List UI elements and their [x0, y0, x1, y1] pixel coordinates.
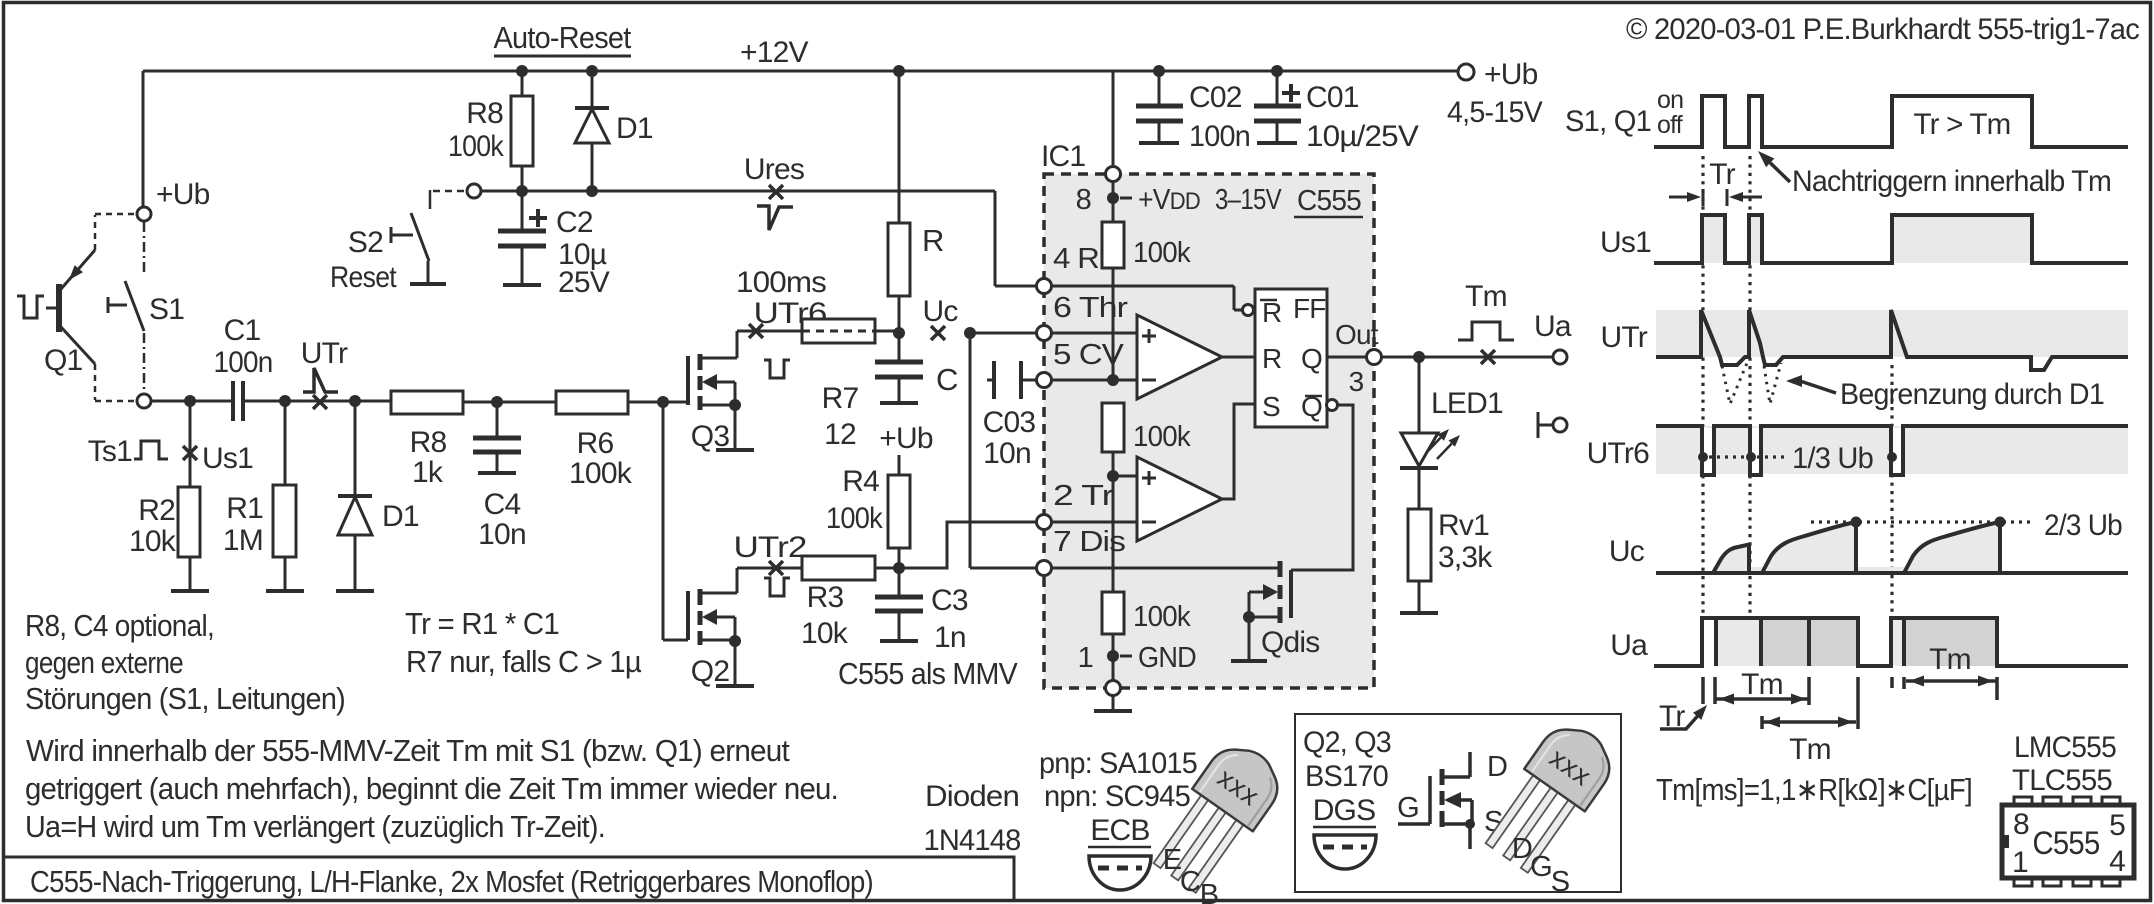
- svg-text:10µ/25V: 10µ/25V: [1306, 120, 1419, 153]
- svg-text:R1: R1: [226, 492, 263, 525]
- waveform Uc fills: [1713, 567, 2000, 573]
- svg-text:Qdis: Qdis: [1261, 626, 1320, 659]
- junction Uc-Thr/Dis branch: [964, 327, 976, 339]
- capacitor C02 100n: [1136, 71, 1250, 153]
- svg-text:C555: C555: [2033, 825, 2100, 861]
- svg-text:FF: FF: [1293, 293, 1326, 324]
- svg-text:Tm: Tm: [1741, 668, 1783, 701]
- mosfet symbol legend: [1397, 751, 1507, 849]
- diode D1 (input clamp): [338, 401, 419, 591]
- svg-text:Auto-Reset: Auto-Reset: [494, 20, 632, 55]
- wire Uc to pin6 Thr: [970, 332, 1037, 335]
- svg-text:getriggert (auch mehrfach), be: getriggert (auch mehrfach), beginnt die …: [25, 771, 838, 806]
- svg-text:gegen externe: gegen externe: [25, 645, 183, 680]
- resistor R8 1k (series): [391, 391, 497, 489]
- waveform UTr6 pulse windows: [1704, 428, 1713, 475]
- dimension Tm third: [1892, 676, 1997, 701]
- legend box Q2 Q3: [1295, 714, 1621, 892]
- svg-text:npn: SC945: npn: SC945: [1044, 780, 1190, 813]
- node Us1 measurement point: [183, 442, 253, 475]
- wire Out to Ua: [1381, 356, 1553, 359]
- capacitor C03 10n (CV): [983, 361, 1037, 470]
- svg-text:1/3 Ub: 1/3 Ub: [1792, 442, 1873, 475]
- svg-text:UTr: UTr: [301, 337, 348, 370]
- waveform Uc curve 2: [1762, 522, 1856, 573]
- annotation Begrenzung durch D1: [1786, 375, 2104, 411]
- pin 4 R: [1037, 243, 1100, 294]
- node trigger-line left terminal: [137, 394, 151, 408]
- svg-text:Q2: Q2: [691, 655, 730, 688]
- svg-text:R7 nur, falls C > 1µ: R7 nur, falls C > 1µ: [406, 644, 642, 679]
- svg-text:D: D: [1512, 833, 1532, 865]
- pin 6 Thr: [1037, 292, 1129, 341]
- ground D1: [336, 589, 374, 593]
- node IC1 GND border circle: [1106, 656, 1121, 696]
- junction rail-C01: [1271, 65, 1283, 77]
- ground C01: [1257, 141, 1297, 145]
- svg-text:C02: C02: [1189, 81, 1242, 114]
- svg-text:2 Tr: 2 Tr: [1053, 480, 1114, 512]
- svg-text:C4: C4: [484, 488, 521, 521]
- svg-text:on: on: [1657, 86, 1683, 114]
- svg-text:R7: R7: [822, 382, 859, 415]
- wire divider to 100k bottom: [1112, 476, 1115, 592]
- node IC1 VDD border circle: [1106, 167, 1121, 182]
- svg-text:7 Dis: 7 Dis: [1053, 526, 1125, 558]
- junction D1 tap: [349, 395, 361, 407]
- diode D1 (auto-reset): [575, 71, 653, 191]
- svg-text:Tr = R1 * C1: Tr = R1 * C1: [405, 606, 559, 641]
- svg-text:Nachtriggern innerhalb Tm: Nachtriggern innerhalb Tm: [1792, 165, 2111, 198]
- label pnp npn types: [1039, 747, 1197, 813]
- junction Ures-D1: [586, 185, 598, 197]
- svg-text:Wird innerhalb der 555-MMV-Zei: Wird innerhalb der 555-MMV-Zeit Tm mit S…: [26, 733, 790, 768]
- node Ua terminal: [1534, 310, 1572, 364]
- svg-text:100k: 100k: [569, 457, 633, 490]
- node Ures measurement point: [744, 153, 804, 230]
- waveform S1 Q1 trace: [1654, 96, 2128, 147]
- resistor R4 100k: [826, 465, 910, 568]
- junction divider-comp2: [1107, 470, 1119, 482]
- svg-text:10n: 10n: [983, 437, 1031, 470]
- svg-text:C555 als MMV: C555 als MMV: [838, 656, 1018, 691]
- svg-text:Out: Out: [1335, 319, 1379, 350]
- dimension Tr: [1669, 158, 1762, 206]
- svg-text:Tr: Tr: [1709, 158, 1735, 191]
- led LED1: [1400, 357, 1503, 468]
- svg-text:S1: S1: [149, 293, 184, 326]
- svg-text:C555: C555: [1297, 185, 1361, 217]
- svg-text:Ua: Ua: [1610, 629, 1648, 662]
- ground IC1: [1094, 695, 1132, 711]
- dimension Tm first: [1716, 668, 1809, 705]
- svg-text:+Ub: +Ub: [1484, 58, 1538, 91]
- wire trigger line segment 2: [285, 400, 355, 403]
- svg-text:G: G: [1530, 851, 1552, 883]
- svg-text:off: off: [1657, 111, 1683, 139]
- svg-text:Begrenzung durch D1: Begrenzung durch D1: [1840, 378, 2104, 411]
- label pin1 GND: [1078, 642, 1196, 674]
- svg-text:100k: 100k: [448, 130, 505, 163]
- capacitor C4 10n: [473, 402, 526, 551]
- svg-text:8: 8: [1076, 184, 1091, 216]
- label Q2 Q3 BS170: [1303, 726, 1391, 793]
- node UTr2 measurement point: [769, 561, 783, 575]
- svg-text:Dioden: Dioden: [925, 780, 1019, 813]
- junction rail-D1: [586, 65, 598, 77]
- junction rail-R: [893, 65, 905, 77]
- resistor divider 100k middle: [1102, 403, 1191, 476]
- svg-text:S1, Q1: S1, Q1: [1565, 105, 1651, 138]
- ground Q3 source: [716, 448, 754, 452]
- svg-text:4: 4: [2109, 845, 2125, 878]
- wire gate node to Q2: [663, 402, 688, 640]
- wire Uc to pin7 Dis: [970, 333, 1037, 568]
- label +VDD 3-15V C555: [1076, 184, 1363, 217]
- node +Ub right terminal: [1447, 58, 1543, 129]
- IC1 C555 block outline: [1041, 140, 1374, 688]
- switch S2 Reset: [330, 190, 466, 294]
- svg-text:Störungen (S1, Leitungen): Störungen (S1, Leitungen): [25, 681, 345, 716]
- ground Qdis: [1231, 659, 1267, 663]
- node pin3 Out border circle: [1367, 350, 1382, 365]
- svg-text:6 Thr: 6 Thr: [1053, 292, 1128, 324]
- svg-text:R2: R2: [138, 494, 175, 527]
- svg-text:Ts1: Ts1: [88, 435, 132, 468]
- svg-text:S: S: [1551, 866, 1570, 898]
- waveform Uc curve 3: [1904, 522, 2000, 573]
- waveform UTr6 band: [1656, 426, 2128, 474]
- svg-text:D: D: [1487, 751, 1507, 783]
- ground C4: [478, 471, 516, 475]
- svg-text:Q1: Q1: [44, 344, 83, 377]
- dotted limit curve 2: [1764, 363, 1781, 404]
- waveform Us1 trace: [1654, 215, 2128, 263]
- svg-text:100k: 100k: [1133, 421, 1191, 453]
- svg-text:100n: 100n: [214, 346, 273, 379]
- svg-text:Q2, Q3: Q2, Q3: [1303, 726, 1391, 759]
- waveform Ua fills: [1716, 618, 1761, 666]
- junction pin1 GND: [1107, 650, 1119, 662]
- package TO-92 view (BS170): [1477, 714, 1623, 879]
- svg-text:4,5-15V: 4,5-15V: [1447, 96, 1543, 129]
- label Ts1 with pulse glyph: [88, 435, 168, 468]
- level dots 1/3 Ub: [1698, 442, 1897, 475]
- svg-text:3: 3: [1349, 366, 1364, 397]
- svg-text:LMC555: LMC555: [2014, 731, 2116, 764]
- svg-text:BS170: BS170: [1305, 760, 1388, 793]
- svg-text:UTr: UTr: [1601, 321, 1648, 354]
- wire Ures net: [481, 191, 1037, 286]
- svg-text:UTr6: UTr6: [1587, 437, 1649, 470]
- waveform UTr band: [1656, 310, 2128, 357]
- junction C4 tap: [491, 396, 503, 408]
- svg-text:Ua: Ua: [1534, 310, 1572, 343]
- svg-text:C03: C03: [983, 406, 1036, 439]
- junction LED tap: [1413, 351, 1425, 363]
- svg-text:Us1: Us1: [1600, 226, 1651, 259]
- node S2 terminal circle: [467, 184, 481, 198]
- package bottom view ECB: [1089, 856, 1151, 890]
- svg-text:1: 1: [2012, 846, 2028, 879]
- ground C3: [880, 639, 918, 643]
- note R8 C4 optional: [25, 608, 345, 716]
- svg-text:Ures: Ures: [744, 153, 804, 186]
- svg-text:E: E: [1163, 844, 1182, 876]
- svg-text:R8, C4 optional,: R8, C4 optional,: [25, 608, 214, 643]
- waveform UTr trace: [1656, 310, 2128, 370]
- capacitor C3 1n: [875, 568, 968, 654]
- svg-text:25V: 25V: [558, 266, 610, 299]
- title box: [4, 857, 1014, 899]
- junction pin8 VDD: [1107, 192, 1119, 204]
- ground C: [880, 401, 918, 405]
- svg-text:100k: 100k: [1133, 601, 1191, 633]
- junction R2 tap: [184, 395, 196, 407]
- label Auto-Reset: [494, 20, 632, 56]
- resistor R6 100k: [497, 391, 663, 490]
- svg-text:10n: 10n: [478, 518, 526, 551]
- svg-text:R3: R3: [807, 581, 844, 614]
- capacitor C01 10u/25V: [1254, 71, 1419, 153]
- svg-text:Tm: Tm: [1789, 733, 1831, 766]
- switch S1: [108, 222, 184, 393]
- svg-text:GND: GND: [1138, 642, 1196, 674]
- svg-text:C1: C1: [224, 314, 261, 347]
- svg-text:Tm: Tm: [1929, 643, 1971, 676]
- package TO-92 view (SA1015/SC945): [1145, 734, 1291, 899]
- ground R1: [266, 589, 304, 593]
- label Dioden 1N4148: [924, 780, 1021, 857]
- dotted guide line 2: [1748, 156, 1751, 664]
- svg-text:R: R: [922, 223, 944, 258]
- node UTr measurement point: [301, 337, 348, 409]
- wire FF Qbar to Qdis gate: [1291, 400, 1353, 571]
- waveform UTr6 trace: [1656, 426, 2128, 475]
- svg-text:5: 5: [2109, 809, 2125, 842]
- label LMC555 TLC555: [2012, 731, 2116, 797]
- node output connector terminal: [1538, 412, 1567, 438]
- wire rail to pin8: [1112, 71, 1115, 198]
- svg-text:R: R: [1262, 297, 1281, 328]
- ground C02: [1139, 141, 1179, 145]
- svg-text:D1: D1: [382, 500, 419, 533]
- svg-text:UTr2: UTr2: [734, 531, 807, 564]
- resistor Rv1 3.3k: [1408, 468, 1493, 613]
- junction rail-C02: [1153, 65, 1165, 77]
- resistor R3 10k: [737, 556, 899, 650]
- wire trigger line: [151, 400, 233, 403]
- svg-text:R: R: [1262, 343, 1281, 374]
- transistor Q1 (pnp): [44, 214, 136, 401]
- resistor divider 100k bottom: [1102, 592, 1191, 656]
- svg-text:ECB: ECB: [1090, 814, 1149, 847]
- capacitor C1 100n: [214, 314, 286, 421]
- ic package C555 pinout: [2002, 797, 2134, 886]
- label 100ms / UTr6 with pulse glyph: [736, 266, 827, 378]
- capacitor C2 10u/25V: [498, 191, 610, 299]
- svg-text:C: C: [936, 362, 958, 397]
- svg-text:10k: 10k: [129, 525, 177, 558]
- comparator U1 (threshold): [1051, 315, 1255, 399]
- resistor R8 (auto-reset 100k): [448, 71, 533, 191]
- resistor divider 100k top: [1102, 198, 1191, 380]
- ground Q2 source: [716, 684, 754, 688]
- svg-text:D1: D1: [616, 112, 653, 145]
- pin 5 CV: [1037, 339, 1125, 388]
- svg-text:Tm[ms]=1,1∗R[kΩ]∗C[µF]: Tm[ms]=1,1∗R[kΩ]∗C[µF]: [1656, 772, 1972, 807]
- junction Q3/Q2 gate node: [657, 396, 669, 408]
- svg-text:R8: R8: [410, 426, 447, 459]
- wire FF Q to Out pin3: [1327, 319, 1379, 397]
- junction R4/R3/C3 node: [893, 562, 905, 574]
- svg-text:10k: 10k: [801, 617, 849, 650]
- svg-text:B: B: [1200, 879, 1219, 904]
- svg-text:R4: R4: [842, 465, 879, 498]
- annotation Tr arrow: [1659, 700, 1707, 733]
- pin 7 Dis: [1037, 526, 1126, 576]
- svg-text:100n: 100n: [1189, 120, 1250, 153]
- resistor R (timing): [888, 71, 944, 333]
- svg-text:100k: 100k: [826, 502, 884, 535]
- note Tr formula: [405, 606, 642, 679]
- svg-text:1n: 1n: [934, 621, 966, 654]
- junction Ures-R8: [516, 185, 528, 197]
- waveform Uc baseline: [1656, 571, 2128, 575]
- svg-text:1M: 1M: [223, 524, 263, 557]
- annotation Nachtriggern arrow: [1758, 151, 2111, 198]
- node UTr6 measurement point: [749, 324, 763, 338]
- svg-text:1: 1: [1078, 642, 1093, 674]
- input pulse glyph at Q1 base: [17, 296, 44, 318]
- capacitor C (timing): [875, 333, 958, 402]
- svg-text:3‒15V: 3‒15V: [1215, 184, 1282, 216]
- dotted guide line 3: [1890, 365, 1893, 614]
- svg-text:G: G: [1397, 792, 1419, 824]
- label Tm pulse glyph at output: [1458, 280, 1514, 340]
- svg-text:+12V: +12V: [740, 36, 808, 69]
- wire +12V rail: [143, 71, 1459, 207]
- svg-text:Q: Q: [1301, 343, 1322, 374]
- dotted guide line 1: [1701, 156, 1704, 614]
- dotted limit curve 1: [1722, 363, 1747, 404]
- wire trigger node to pin2 Tr: [899, 522, 1037, 568]
- svg-text:R6: R6: [577, 427, 614, 460]
- wire pin4 to FF R-bar: [1051, 286, 1243, 310]
- node +Ub left terminal: [137, 178, 210, 221]
- svg-text:2/3 Ub: 2/3 Ub: [2044, 509, 2122, 542]
- svg-text:Tm: Tm: [1465, 280, 1507, 313]
- transistor Qdis: [1051, 561, 1320, 661]
- svg-text:C555-Nach-Triggerung, L/H-Flan: C555-Nach-Triggerung, L/H-Flanke, 2x Mos…: [30, 864, 873, 899]
- svg-text:TLC555: TLC555: [2012, 764, 2112, 797]
- ground Rv1: [1400, 611, 1438, 615]
- svg-text:Uc: Uc: [922, 295, 958, 328]
- comparator U2 (trigger): [1051, 404, 1255, 541]
- package bottom view DGS: [1314, 835, 1376, 869]
- ground C2: [503, 283, 541, 287]
- svg-text:C01: C01: [1306, 81, 1359, 114]
- svg-text:+Ub: +Ub: [879, 422, 933, 455]
- paragraph retrigger explanation: [25, 733, 838, 844]
- svg-text:Us1: Us1: [202, 442, 253, 475]
- svg-text:© 2020-03-01 P.E.Burkhardt 555: © 2020-03-01 P.E.Burkhardt 555-trig1-7ac: [1626, 13, 2140, 46]
- svg-text:Tr > Tm: Tr > Tm: [1914, 108, 2011, 141]
- flip-flop FF: [1243, 289, 1328, 427]
- label UTr2 with pulse glyph: [734, 531, 807, 596]
- junction Uc node: [893, 327, 905, 339]
- node Uc measurement point: [922, 295, 958, 340]
- svg-text:pnp: SA1015: pnp: SA1015: [1039, 747, 1197, 780]
- svg-text:5 CV: 5 CV: [1053, 339, 1125, 371]
- svg-text:S2: S2: [348, 226, 383, 259]
- svg-text:+Ub: +Ub: [156, 178, 210, 211]
- svg-text:12: 12: [824, 418, 856, 451]
- waveform Uc curve 1: [1713, 545, 1749, 574]
- svg-text:Ua=H wird um Tm verlängert (zu: Ua=H wird um Tm verlängert (zuzüglich Tr…: [25, 809, 605, 844]
- svg-text:S: S: [1262, 391, 1280, 422]
- ground R2: [171, 589, 209, 593]
- resistor R1 1M: [223, 401, 296, 591]
- label +Ub stub above R4: [879, 422, 933, 475]
- pin 2 Tr: [1037, 480, 1115, 530]
- wire trigger line segment 3: [355, 400, 391, 403]
- svg-text:Rv1: Rv1: [1438, 509, 1489, 542]
- dimension ticks below Ua: [1703, 677, 1715, 704]
- resistor R2 10k: [129, 401, 200, 591]
- svg-text:100ms: 100ms: [736, 266, 826, 299]
- waveform S1 Q1 label: [1565, 86, 1683, 139]
- svg-text:1k: 1k: [412, 456, 444, 489]
- waveform Us1 fills: [1702, 215, 1725, 263]
- svg-text:IC1: IC1: [1041, 140, 1085, 173]
- waveform Ua trace: [1654, 618, 2128, 666]
- transistor Q2 (BS170): [688, 568, 741, 688]
- transistor Q3 (BS170): [663, 331, 741, 453]
- junction divider-CV: [1107, 374, 1119, 386]
- svg-text:4 R: 4 R: [1053, 243, 1099, 275]
- svg-text:+VDD: +VDD: [1138, 184, 1200, 216]
- svg-text:C3: C3: [931, 584, 968, 617]
- svg-text:100k: 100k: [1133, 237, 1191, 269]
- label ECB pinout: [1088, 814, 1151, 847]
- level 2/3 Ub dots and line: [1811, 509, 2122, 542]
- svg-text:R8: R8: [466, 97, 503, 130]
- dimension Tm second: [1762, 677, 1858, 766]
- svg-text:8: 8: [2013, 808, 2029, 841]
- svg-text:C2: C2: [556, 206, 593, 239]
- svg-text:1N4148: 1N4148: [924, 824, 1021, 857]
- svg-text:Reset: Reset: [330, 261, 397, 294]
- junction R1 tap: [279, 395, 291, 407]
- node Ua measurement point: [1481, 350, 1495, 364]
- label DGS pinout: [1313, 794, 1376, 827]
- svg-text:Uc: Uc: [1609, 535, 1645, 568]
- junction rail-R8: [516, 65, 528, 77]
- svg-text:LED1: LED1: [1431, 387, 1503, 420]
- svg-text:DGS: DGS: [1313, 794, 1376, 827]
- svg-text:3,3k: 3,3k: [1438, 541, 1493, 574]
- resistor R7 12 (optional, dashed): [737, 319, 899, 451]
- svg-text:C: C: [1180, 866, 1200, 898]
